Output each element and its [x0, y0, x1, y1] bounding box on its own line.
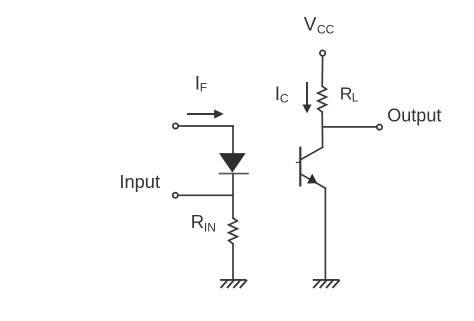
svg-text:F: F [200, 81, 207, 95]
svg-text:C: C [280, 92, 289, 106]
label IF [195, 74, 207, 95]
resistor RL [318, 86, 327, 112]
svg-text:V: V [304, 15, 317, 36]
wire VCC to RL [321, 57, 323, 86]
node Output terminal [377, 125, 382, 130]
node VCC terminal [320, 50, 325, 55]
transistor Q1 (phototransistor) [296, 147, 325, 188]
label RL [340, 83, 359, 104]
wire output horizontal [323, 126, 377, 128]
svg-text:IN: IN [204, 221, 216, 235]
svg-text:CC: CC [317, 22, 335, 36]
wire emitter to ground [324, 188, 326, 279]
label VCC [304, 15, 335, 37]
current arrow IC [303, 83, 312, 113]
wire input bottom horizontal [179, 194, 233, 196]
label IC [275, 84, 289, 106]
svg-text:Input: Input [119, 171, 160, 192]
resistor RIN [229, 218, 238, 244]
wire input top horizontal [179, 125, 233, 127]
wire anode vertical [232, 126, 234, 154]
current arrow IF [188, 109, 224, 118]
svg-text:Output: Output [387, 106, 441, 126]
svg-text:R: R [191, 211, 204, 232]
svg-text:L: L [352, 91, 359, 105]
node Input- terminal [173, 193, 178, 198]
ground GND2 [314, 280, 339, 287]
node Input+ terminal (top-left) [173, 123, 178, 128]
ground GND1 [221, 280, 246, 287]
diode D1 (LED) [219, 153, 248, 174]
wire RL to collector junction [321, 112, 323, 147]
wire RIN to ground [232, 244, 234, 279]
label RIN [191, 211, 216, 235]
wire cathode vertical [232, 175, 234, 219]
svg-text:R: R [340, 83, 353, 103]
